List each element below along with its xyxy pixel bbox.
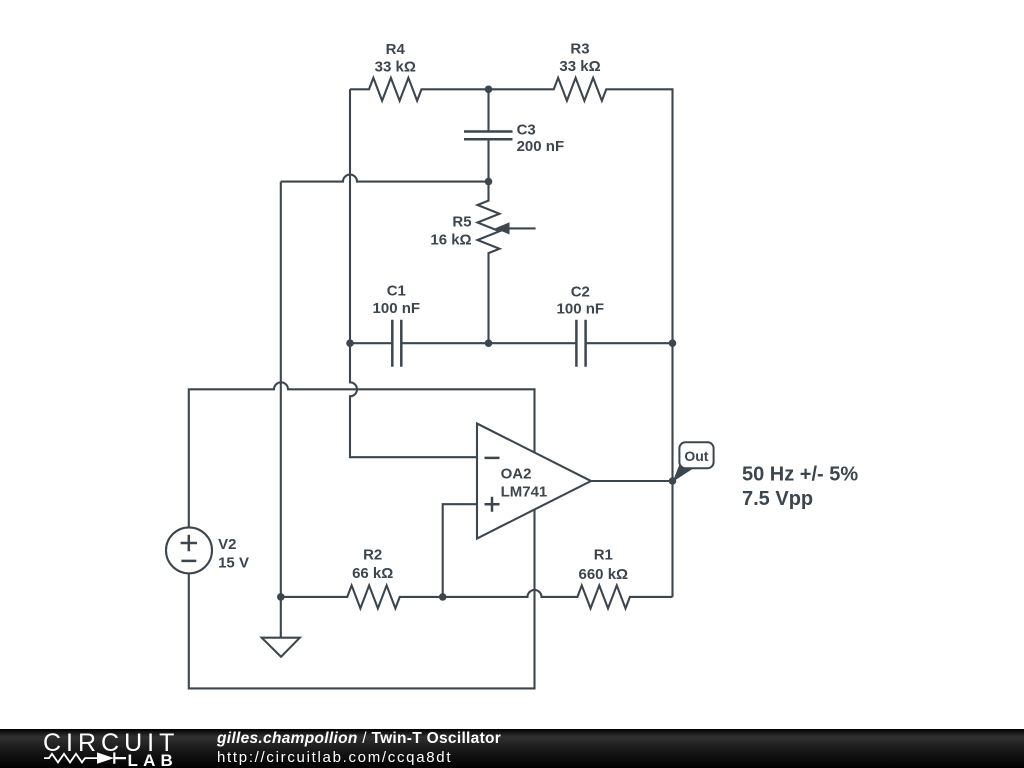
svg-text:R5: R5 bbox=[452, 214, 471, 231]
svg-text:50 Hz +/- 5%: 50 Hz +/- 5% bbox=[742, 464, 858, 486]
svg-text:33 kΩ: 33 kΩ bbox=[375, 59, 416, 76]
svg-text:200 nF: 200 nF bbox=[517, 138, 565, 155]
svg-text:C1: C1 bbox=[387, 282, 406, 299]
svg-text:R3: R3 bbox=[570, 41, 589, 58]
svg-text:660 kΩ: 660 kΩ bbox=[579, 566, 629, 583]
svg-text:33 kΩ: 33 kΩ bbox=[559, 58, 600, 75]
svg-text:100 nF: 100 nF bbox=[557, 301, 605, 318]
svg-text:C2: C2 bbox=[571, 283, 590, 300]
svg-text:R1: R1 bbox=[594, 546, 613, 563]
svg-text:LM741: LM741 bbox=[501, 483, 548, 500]
svg-text:7.5 Vpp: 7.5 Vpp bbox=[742, 488, 813, 510]
svg-text:16 kΩ: 16 kΩ bbox=[430, 232, 471, 249]
svg-text:C3: C3 bbox=[517, 122, 536, 139]
svg-text:100 nF: 100 nF bbox=[373, 300, 421, 317]
svg-text:Out: Out bbox=[684, 448, 708, 464]
svg-text:OA2: OA2 bbox=[501, 466, 532, 483]
svg-text:66 kΩ: 66 kΩ bbox=[352, 565, 393, 582]
svg-text:R4: R4 bbox=[386, 41, 406, 58]
svg-text:V2: V2 bbox=[218, 536, 236, 553]
svg-text:15 V: 15 V bbox=[218, 555, 249, 572]
svg-text:R2: R2 bbox=[363, 546, 382, 563]
